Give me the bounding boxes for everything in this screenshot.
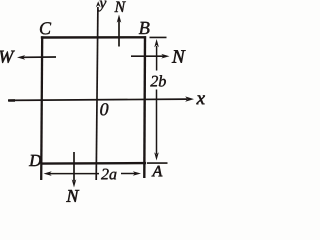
label N top: [114, 2, 126, 12]
dimension 2b lower segment, down arrow: [156, 90, 158, 155]
label 2a: [101, 169, 116, 180]
plate bottom edge DA: [41, 162, 146, 165]
label A: [152, 166, 163, 177]
plate top edge CB: [41, 36, 146, 39]
plate right edge BA with dimension extension below: [143, 36, 146, 178]
dimension 2a left segment, left arrow: [47, 173, 99, 175]
dimension 2b bottom tick: [147, 162, 168, 164]
dimension 2a right segment, right arrow: [121, 173, 137, 175]
label 2b: [150, 75, 166, 86]
force N right: [131, 55, 164, 57]
force W left: [23, 56, 56, 58]
label x: [196, 95, 205, 104]
label N bottom: [66, 190, 79, 202]
y-axis: [96, 7, 98, 180]
label C: [40, 22, 51, 34]
force N top: [118, 20, 120, 47]
label O origin: [100, 103, 108, 115]
dimension 2b top tick: [150, 36, 167, 38]
label D: [29, 155, 41, 166]
dimension 2b upper segment, up arrow: [156, 46, 158, 71]
label W: [0, 51, 15, 63]
label N right: [172, 50, 186, 62]
x-axis: [8, 99, 187, 100]
force N bottom: [73, 152, 75, 181]
label B: [139, 22, 150, 34]
plate left edge CD with dimension extension below: [41, 36, 42, 180]
label y: [98, 1, 106, 12]
